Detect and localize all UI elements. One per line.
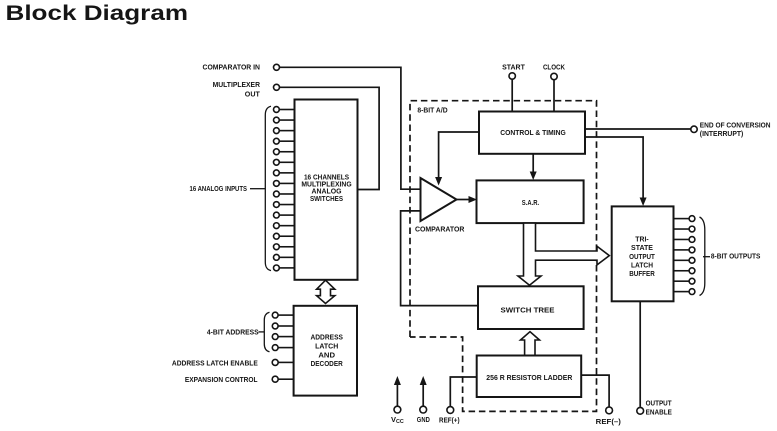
tick 16 analog inputs <box>250 188 265 190</box>
svg-text:SWITCH TREE: SWITCH TREE <box>501 307 555 315</box>
wire START to control & timing <box>511 79 513 111</box>
svg-text:SWITCHES: SWITCHES <box>310 195 343 203</box>
svg-text:4-BIT ADDRESS: 4-BIT ADDRESS <box>207 328 259 337</box>
block switch tree <box>478 286 584 329</box>
wire MULTIPLEXER OUT to multiplexer output <box>280 87 379 189</box>
pin circle MULTIPLEXER OUT <box>274 84 280 90</box>
svg-text:LATCH: LATCH <box>315 343 338 351</box>
pins 4-bit address circles and wires <box>272 312 293 350</box>
wire control & timing to SAR <box>532 154 534 173</box>
svg-text:OUTPUT: OUTPUT <box>646 399 672 408</box>
hollow arrow SAR to switch tree and tri-state buffer <box>518 223 609 285</box>
wire resistor ladder to REF(-) <box>581 375 609 407</box>
block address latch and decoder <box>294 306 357 396</box>
svg-text:REF(+): REF(+) <box>439 415 460 424</box>
svg-text:BUFFER: BUFFER <box>629 270 655 278</box>
op-amp comparator triangle <box>421 178 457 221</box>
wire COMPARATOR IN to comparator top input <box>280 67 421 189</box>
pin circle REF(+) <box>447 407 454 414</box>
pin circle GND <box>420 406 427 413</box>
svg-text:CONTROL & TIMING: CONTROL & TIMING <box>500 129 566 137</box>
pin circle CLOCK <box>551 73 557 79</box>
pin circle COMPARATOR IN <box>274 64 280 70</box>
pin circle REF(-) <box>606 407 613 414</box>
svg-text:ADDRESS LATCH ENABLE: ADDRESS LATCH ENABLE <box>172 358 258 367</box>
wire switch tree feedback to comparator input <box>401 211 478 306</box>
pins 16 analog input circles and wires <box>274 107 295 271</box>
svg-text:EXPANSION CONTROL: EXPANSION CONTROL <box>185 375 258 384</box>
svg-text:256 R RESISTOR LADDER: 256 R RESISTOR LADDER <box>486 374 572 382</box>
bracket 16 analog inputs <box>265 106 271 270</box>
svg-text:STATE: STATE <box>631 244 653 252</box>
pins 8 output circles and wires <box>674 216 695 295</box>
arrowhead VCC <box>394 376 401 385</box>
svg-text:ENABLE: ENABLE <box>646 407 672 416</box>
svg-text:(INTERRUPT): (INTERRUPT) <box>700 129 744 138</box>
wire GND arrow <box>422 382 424 406</box>
svg-text:16 ANALOG INPUTS: 16 ANALOG INPUTS <box>190 184 248 193</box>
pin circle VCC <box>394 406 401 413</box>
pin circle START <box>509 73 515 79</box>
block 16 channels multiplexing analog switches <box>295 100 358 280</box>
wire tri-state buffer to OUTPUT ENABLE <box>639 301 641 407</box>
svg-text:GND: GND <box>417 415 430 424</box>
svg-text:8-BIT A/D: 8-BIT A/D <box>417 106 448 115</box>
block tri-state output latch buffer <box>612 206 674 301</box>
svg-text:START: START <box>502 62 525 71</box>
tick 4-bit address <box>259 331 265 333</box>
pin circle EXPANSION CONTROL <box>272 376 278 382</box>
svg-text:OUT: OUT <box>245 90 260 99</box>
block 256R resistor ladder <box>477 356 582 398</box>
svg-text:COMPARATOR IN: COMPARATOR IN <box>203 62 261 71</box>
wire comparator output to SAR <box>457 199 471 201</box>
svg-text:COMPARATOR: COMPARATOR <box>415 224 465 233</box>
wire EXPANSION CONTROL to address latch <box>278 378 293 380</box>
arrowhead into SAR <box>530 172 537 181</box>
arrowhead into comparator <box>435 177 442 186</box>
wire control & timing to END OF CONVERSION <box>585 128 691 130</box>
hollow arrow resistor ladder to switch tree <box>521 332 540 356</box>
bidirectional hollow arrow mux to address latch <box>317 280 335 303</box>
bracket 4-bit address <box>264 312 269 352</box>
svg-text:8-BIT OUTPUTS: 8-BIT OUTPUTS <box>711 252 761 261</box>
svg-text:DECODER: DECODER <box>311 360 343 368</box>
block SAR <box>477 180 584 223</box>
wire resistor ladder to REF(+) <box>450 377 476 406</box>
wire CLOCK to control & timing <box>553 80 555 112</box>
svg-text:AND: AND <box>318 351 335 359</box>
svg-text:REF(–): REF(–) <box>596 417 622 426</box>
svg-text:OUTPUT: OUTPUT <box>629 253 655 261</box>
pin circle END OF CONVERSION <box>691 126 697 132</box>
wire ALE to address latch <box>278 361 293 363</box>
arrowhead comparator to SAR <box>469 196 478 203</box>
bracket 8-bit outputs <box>700 217 705 296</box>
svg-text:TRI-: TRI- <box>635 235 649 243</box>
svg-text:ADDRESS: ADDRESS <box>310 334 343 342</box>
arrowhead into tri-state latch <box>640 198 647 207</box>
block control & timing <box>479 112 585 154</box>
svg-text:LATCH: LATCH <box>631 262 653 270</box>
wire control & timing to comparator <box>439 132 479 178</box>
svg-text:CLOCK: CLOCK <box>543 62 566 71</box>
wire control & timing to tri-state latch <box>585 137 643 199</box>
wire VCC arrow <box>396 382 398 406</box>
svg-text:S.A.R.: S.A.R. <box>522 199 539 207</box>
arrowhead GND <box>420 376 427 385</box>
tick 8-bit outputs <box>703 256 710 258</box>
pin circle ADDRESS LATCH ENABLE <box>272 359 278 365</box>
svg-text:Block Diagram: Block Diagram <box>6 2 189 25</box>
dashed boundary 8-bit A/D block <box>410 101 597 412</box>
svg-text:MULTIPLEXER: MULTIPLEXER <box>213 80 261 89</box>
pin circle OUTPUT ENABLE <box>637 407 644 414</box>
svg-text:VCC: VCC <box>391 415 404 425</box>
